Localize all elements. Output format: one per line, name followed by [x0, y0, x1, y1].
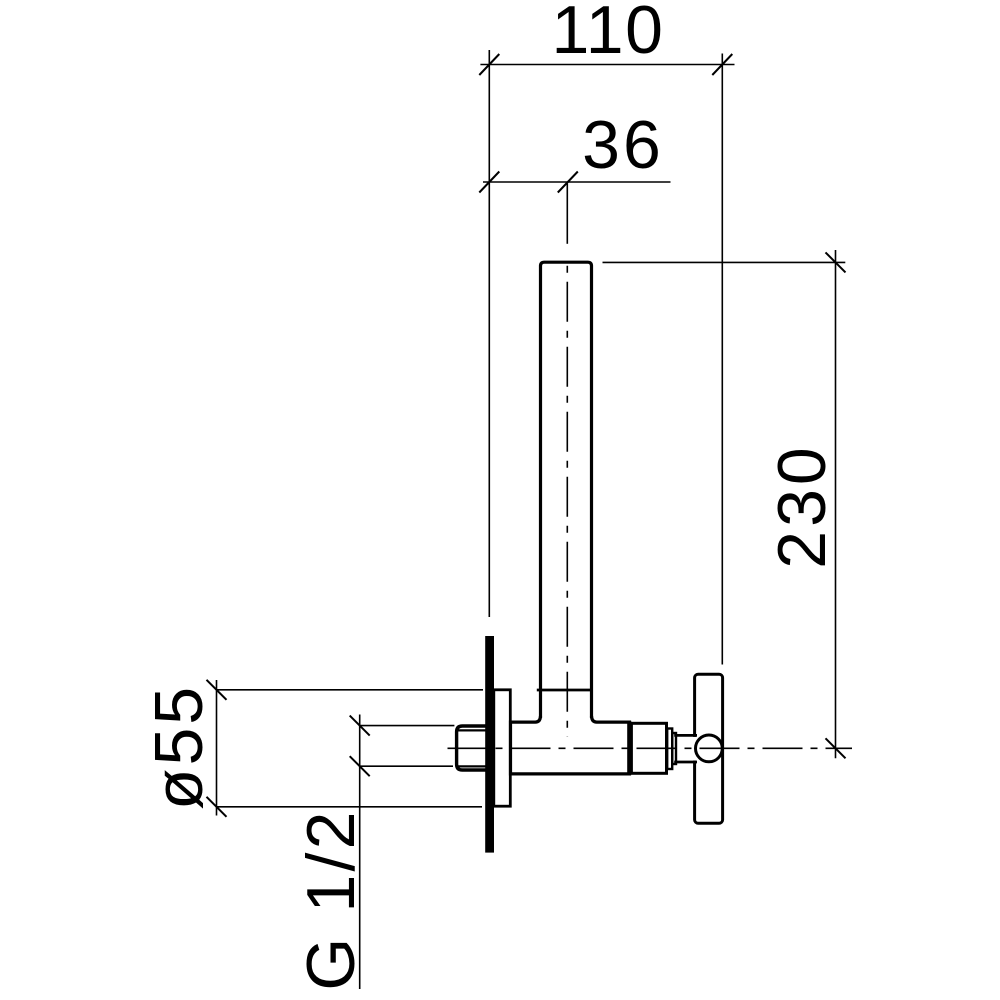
dim 230 top extension line [603, 261, 846, 263]
hex nut facet line bottom [458, 765, 486, 767]
dim G 1/2 dimension line [359, 715, 361, 990]
svg-text:36: 36 [582, 107, 664, 183]
gland step 2 [672, 733, 676, 764]
dim 230 top tick [826, 252, 846, 272]
wall section line (thick) [485, 636, 494, 853]
escutcheon flange [494, 690, 511, 806]
dim 230 bottom tick [826, 738, 846, 758]
vertical centerline (pipe axis) [566, 266, 568, 737]
dim 36 extension segment (centerline start) [566, 184, 568, 244]
dim 110 left tick [479, 54, 499, 75]
pipe step line [537, 689, 592, 692]
horizontal centerline (valve axis) [448, 747, 853, 749]
dim 36 right tick [558, 172, 578, 193]
handle bar left-edge gap [693, 737, 697, 761]
hex nut facet line top [458, 729, 486, 731]
svg-text:G 1/2: G 1/2 [293, 808, 369, 990]
dim 110 right extension line [721, 54, 723, 665]
riser pipe outline [541, 262, 592, 718]
dim 36 left tick [479, 172, 499, 193]
valve stem top line [674, 734, 697, 737]
dim G 1/2 top extension line [360, 725, 455, 727]
svg-text:ø55: ø55 [141, 684, 217, 810]
gland step 1 [667, 729, 672, 770]
body/bonnet separator (thick) [627, 721, 631, 774]
dim 110 dimension line [480, 64, 734, 66]
svg-text:230: 230 [764, 443, 840, 568]
dim G 1/2 bottom tick [350, 756, 370, 776]
valve body outline [511, 716, 630, 774]
valve stem bottom line [674, 761, 697, 764]
handle hub circle [696, 735, 723, 762]
dim ø55 bottom tick [207, 797, 227, 817]
dim 110 left extension line [488, 50, 490, 617]
dim ø55 top extension line [217, 689, 484, 691]
dim 110 right tick [712, 54, 732, 75]
handle bar [695, 674, 723, 823]
dim ø55 top tick [207, 680, 227, 700]
dim G 1/2 bottom extension line [360, 765, 453, 767]
bonnet [631, 723, 666, 773]
dim 230 dimension line [835, 250, 837, 758]
svg-text:110: 110 [552, 0, 665, 68]
dim G 1/2 top tick [350, 716, 370, 736]
dim 36 dimension line [483, 181, 671, 183]
dim ø55 bottom extension line [217, 806, 483, 808]
dim ø55 dimension line [216, 680, 218, 816]
hex nut outline [457, 726, 486, 770]
